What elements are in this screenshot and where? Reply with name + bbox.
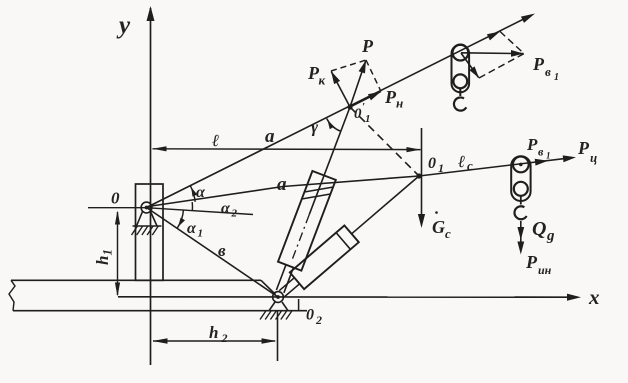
svg-text:ℓ: ℓ [458,152,465,171]
svg-text:2: 2 [315,313,322,327]
svg-text:γ: γ [311,118,319,137]
svg-text:P: P [525,252,538,272]
svg-text:c: c [445,226,451,241]
svg-text:1: 1 [198,228,204,240]
svg-text:0: 0 [306,307,314,324]
svg-text:0: 0 [354,106,362,122]
svg-text:α: α [196,184,206,201]
svg-text:ин: ин [538,263,552,277]
svg-text:′: ′ [362,101,365,113]
svg-text:в: в [218,241,226,260]
svg-text:a: a [265,126,275,147]
svg-text:y: y [116,12,131,39]
svg-text:g: g [546,228,555,244]
svg-text:1: 1 [365,113,371,125]
svg-text:1: 1 [554,72,559,83]
svg-text:в: в [538,145,544,159]
svg-text:x: x [588,285,600,309]
svg-text:P: P [532,54,545,74]
svg-text:в: в [545,64,551,79]
svg-text:α: α [221,200,231,217]
svg-text:c: c [467,158,473,173]
svg-text:Q: Q [532,218,546,240]
svg-text:α: α [187,220,197,237]
svg-text:P: P [577,138,590,158]
svg-text:0: 0 [428,155,436,172]
svg-text:2: 2 [231,208,238,220]
svg-text:P: P [526,135,538,154]
svg-text:1: 1 [546,151,551,161]
svg-text:ℓ: ℓ [212,131,219,150]
svg-text:0: 0 [111,189,120,208]
svg-text:к: к [319,73,326,88]
svg-text:2: 2 [221,331,228,345]
svg-text:G: G [432,217,445,237]
svg-text:ц: ц [590,150,597,165]
svg-text:н: н [396,96,403,111]
svg-text:P: P [361,36,374,56]
svg-text:a: a [277,174,287,195]
svg-text:1: 1 [438,161,444,175]
svg-text:h: h [209,323,218,342]
